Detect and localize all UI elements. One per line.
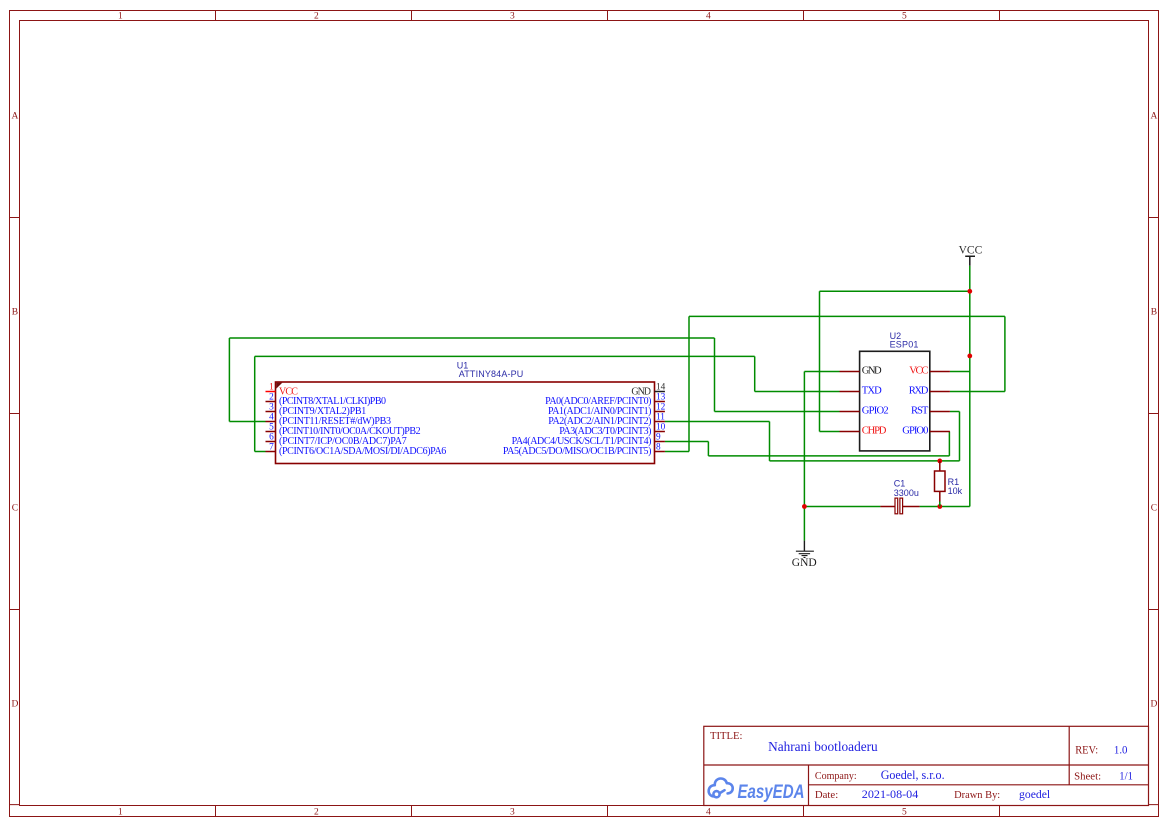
capacitor C1 [880,479,919,514]
wire into U2 GPIO2 pin [715,411,840,413]
wire U1 pin7 PA6 horizontal [255,451,266,453]
wire PB3 net vertical riser [228,338,230,422]
wire GND net vertical [803,372,805,541]
svg-text:5: 5 [269,423,274,433]
U1 pin numbers right [656,383,666,453]
wire PB3 net long horizontal [229,337,714,339]
svg-text:10: 10 [656,423,666,433]
wire PA4 net horizontal run [708,455,949,457]
wire PA4 net short drop [707,442,709,456]
svg-text:A: A [1151,111,1158,121]
svg-text:GPIO0: GPIO0 [902,426,928,437]
svg-text:6: 6 [269,433,274,443]
svg-text:GND: GND [792,557,817,569]
U2 pin stubs right [930,372,950,432]
svg-text:5: 5 [902,12,907,22]
svg-text:Sheet:: Sheet: [1074,772,1101,783]
U1 pin 1 stub [266,391,276,393]
svg-text:4: 4 [269,413,274,423]
wire PA6 net drop to TXD [754,356,756,391]
svg-text:3300u: 3300u [894,488,919,498]
svg-text:TXD: TXD [862,386,882,397]
svg-text:10k: 10k [948,486,963,496]
svg-text:1: 1 [118,12,123,22]
svg-text:ESP01: ESP01 [890,339,919,349]
wire PA2 net horizontal to R1 node [770,460,940,462]
resistor R1 [935,461,963,507]
svg-text:VCC: VCC [959,245,983,257]
svg-text:REV:: REV: [1075,745,1098,757]
svg-text:goedel: goedel [1019,787,1051,801]
svg-text:Date:: Date: [815,790,838,801]
svg-text:3: 3 [510,12,515,22]
svg-text:12: 12 [656,403,666,413]
svg-text:ATTINY84A-PU: ATTINY84A-PU [459,369,524,379]
U2 ESP01 [860,331,930,451]
VCC power symbol [959,245,983,266]
U1 pin names left [279,386,446,457]
svg-text:EasyEDA: EasyEDA [738,781,805,803]
svg-text:D: D [12,699,19,709]
svg-text:Drawn By:: Drawn By: [954,790,1000,801]
svg-text:D: D [1151,699,1158,709]
svg-text:4: 4 [706,12,711,22]
svg-text:TITLE:: TITLE: [710,731,743,742]
EasyEDA logo [709,778,733,797]
svg-text:1: 1 [118,808,123,818]
svg-text:(PCINT6/OC1A/SDA/MOSI/DI/ADC6): (PCINT6/OC1A/SDA/MOSI/DI/ADC6)PA6 [279,446,446,457]
svg-text:PA5(ADC5/DO/MISO/OC1B/PCINT5): PA5(ADC5/DO/MISO/OC1B/PCINT5) [503,446,652,457]
wire U1 pin8 PA5 horizontal [665,451,689,453]
svg-text:RST: RST [911,406,929,417]
wire PB3 net drop to GPIO2 [714,338,716,412]
U1 pin names right [503,386,652,457]
wire into U2 TXD pin [755,391,840,393]
svg-text:A: A [12,111,19,121]
U1 pin numbers left [269,383,274,453]
svg-text:2021-08-04: 2021-08-04 [862,787,919,801]
svg-text:2: 2 [269,393,274,403]
svg-text:B: B [12,307,18,317]
svg-text:1: 1 [269,383,274,393]
svg-text:4: 4 [706,808,711,818]
svg-text:GPIO2: GPIO2 [862,406,889,417]
GND ground symbol [792,541,817,570]
wire U1 pin11 PA2 horizontal [665,421,770,423]
svg-text:3: 3 [510,808,515,818]
wire PA5 net vertical riser [688,316,690,451]
svg-text:Company:: Company: [815,771,857,782]
wire PA5 net drop to RXD [1004,316,1006,391]
wire C1 right to VCC rail [920,506,970,508]
title block text [710,731,1133,801]
TITLE BLOCK [704,726,1149,805]
svg-text:7: 7 [269,443,274,453]
svg-text:1.0: 1.0 [1114,743,1128,757]
svg-text:RXD: RXD [909,386,929,397]
wire CHPD net vertical riser [819,291,821,431]
junction on VCC rail above U2 VCC pin [967,354,972,359]
junction R1 bottom/C1/VCC node [937,504,942,509]
svg-text:2: 2 [314,808,319,818]
junction GND/C1 node [802,504,807,509]
svg-text:C: C [1151,503,1157,513]
junction RST/PA2/R1 top node [937,459,942,464]
svg-text:VCC: VCC [909,366,928,377]
svg-text:14: 14 [656,383,666,393]
U1 ATTINY84A-PU [276,361,655,464]
wire GND node to C1 left [804,506,880,508]
svg-text:1/1: 1/1 [1119,769,1133,783]
svg-text:Goedel, s.r.o.: Goedel, s.r.o. [881,768,945,782]
svg-text:CHPD: CHPD [862,426,887,437]
wire into U2 RST pin [950,411,960,413]
svg-text:GND: GND [862,366,882,377]
wire U1 pin4 PB3 horizontal [229,421,265,423]
wire CHPD net to VCC rail [820,290,970,292]
wire U2 GND pin horizontal [804,371,839,373]
svg-text:9: 9 [656,433,661,443]
svg-text:C: C [12,503,18,513]
wire PA5 net long horizontal [689,315,1005,317]
wire R1 node to RST riser [940,412,960,461]
U2 pin stubs left [840,372,860,432]
wire into U2 RXD pin [950,391,1005,393]
wire U2 VCC pin to rail [950,371,970,373]
wire PA2 net short drop [769,422,771,461]
wire PA6 net vertical riser [254,356,256,451]
U1 pins 2-7 stubs [266,402,276,452]
svg-text:13: 13 [656,393,666,403]
wire VCC rail vertical [969,266,971,507]
svg-text:B: B [1151,307,1157,317]
U1 pin 14 stub [655,391,665,393]
svg-text:Nahrani bootloaderu: Nahrani bootloaderu [768,740,878,755]
svg-text:2: 2 [314,12,319,22]
wire U2 CHPD pin horizontal [820,431,840,433]
svg-text:11: 11 [656,413,665,423]
U2 pin names left [862,366,889,437]
svg-text:3: 3 [269,403,274,413]
wire U1 pin9 PA4 horizontal [665,441,709,443]
U2 pin names right [902,366,929,437]
svg-text:5: 5 [902,808,907,818]
wire PA4 net rise to GPIO0 [948,432,950,456]
junction at CHPD/VCC rail [967,289,972,294]
U1 pins 8-13 stubs [655,402,665,452]
svg-text:8: 8 [656,443,661,453]
wire PA6 net long horizontal [255,355,755,357]
